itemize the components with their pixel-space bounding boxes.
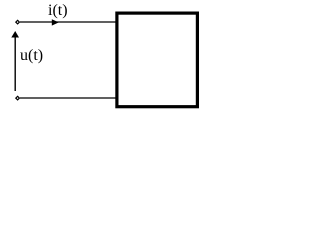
wire (bottom conductor): [20, 97, 116, 99]
wire (top conductor): [20, 21, 116, 23]
label u(t): [20, 48, 43, 64]
node B (bottom terminal diamond): [16, 96, 20, 100]
current arrowhead i(t): [52, 19, 59, 25]
label i(t): [48, 3, 68, 19]
voltage arrowhead u(t): [11, 31, 19, 38]
voltage arrow u(t) shaft: [14, 37, 16, 91]
two-terminal element box: [117, 13, 197, 107]
node A (top terminal diamond): [16, 20, 20, 24]
